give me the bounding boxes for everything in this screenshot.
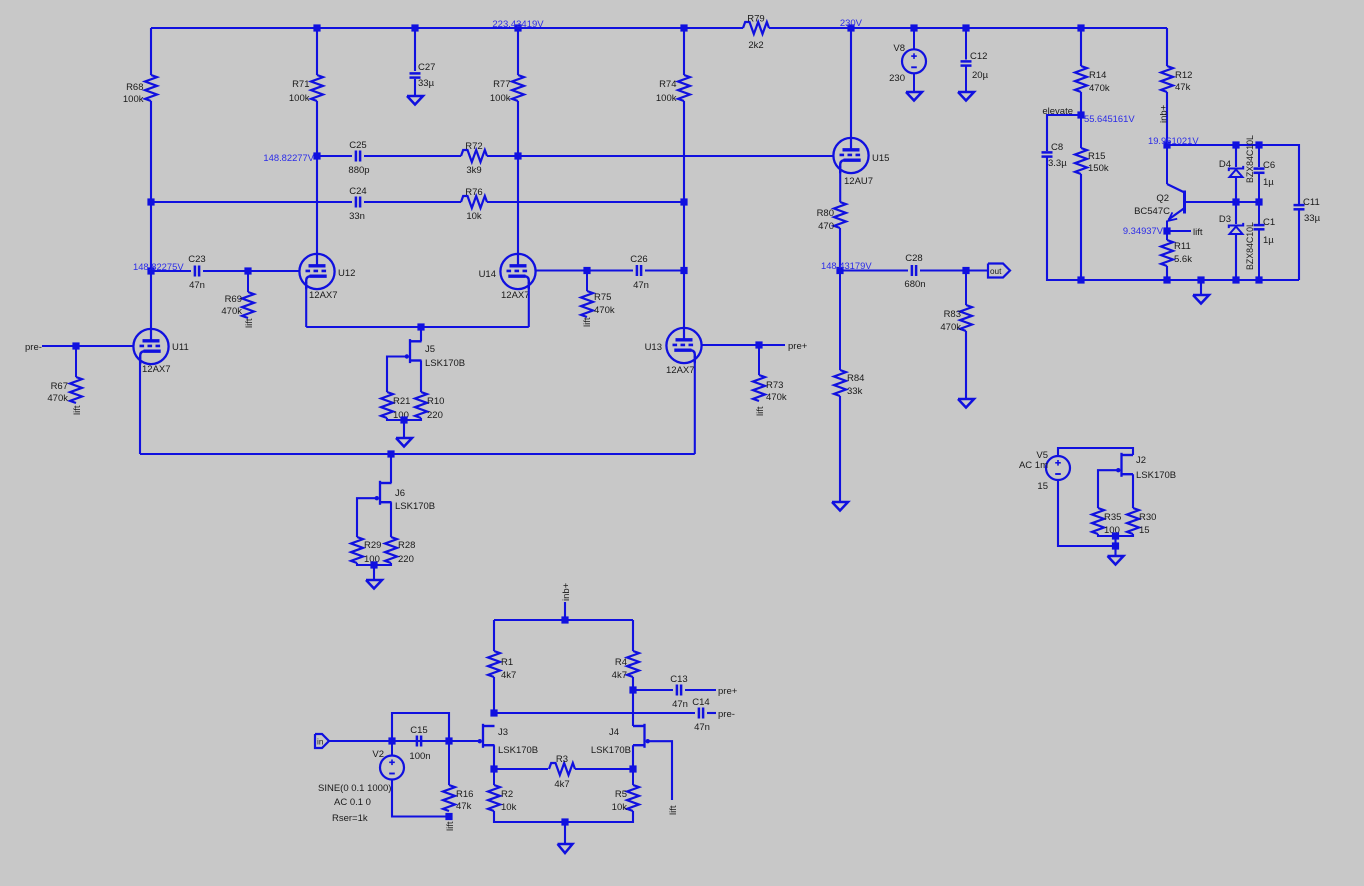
svg-text:2k2: 2k2: [748, 40, 763, 51]
wire cathode rail U11 U13: [140, 453, 695, 455]
svg-text:470k: 470k: [47, 393, 68, 404]
junction top rail R74: [680, 24, 687, 31]
ground J5 tail: [396, 420, 412, 447]
transistor Q2 BC547C: [1134, 145, 1184, 231]
junction R73 top: [755, 341, 762, 348]
svg-text:9.34937V: 9.34937V: [1123, 225, 1164, 236]
junction J6 drain: [387, 450, 394, 457]
node 19.961021V annotation: [1148, 135, 1199, 146]
svg-text:5.6k: 5.6k: [1174, 254, 1192, 265]
wire R3 row right: [575, 768, 633, 770]
wire C23 row left: [151, 270, 191, 272]
svg-text:R1: R1: [501, 657, 513, 668]
junction node 148.43179V: [836, 267, 843, 274]
net label lift at J4: [668, 805, 679, 815]
diode D4 BZX84C10L: [1219, 135, 1255, 183]
junction C24 row right: [680, 198, 687, 205]
svg-text:SINE(0 0.1 1000): SINE(0 0.1 1000): [318, 783, 391, 794]
junction top rail R71: [313, 24, 320, 31]
wire J5 drain lead: [420, 327, 422, 341]
junction node 9.34937V: [1163, 227, 1170, 234]
capacitor C25: [348, 140, 369, 176]
wire C28 to out: [920, 269, 988, 271]
ground R83: [958, 331, 974, 408]
JFET J4 LSK170B: [591, 724, 650, 756]
svg-text:U15: U15: [872, 153, 889, 164]
wire C13 to pre+: [685, 689, 716, 691]
resistor R76: [461, 187, 487, 222]
wire R15 to bottom rail: [1080, 174, 1082, 280]
svg-text:V2: V2: [372, 749, 384, 760]
ground C12: [958, 92, 974, 101]
svg-text:lift: lift: [755, 406, 766, 416]
wire J5 source to R10: [420, 361, 422, 393]
wire C26 to U13 anode column: [645, 269, 684, 271]
junction top rail V8: [910, 24, 917, 31]
svg-text:lift: lift: [1193, 227, 1203, 238]
ground J2 tail: [1108, 546, 1124, 565]
net label lift at R67: [72, 405, 83, 415]
resistor R15: [1075, 115, 1109, 174]
svg-text:47k: 47k: [456, 801, 472, 812]
net label pre+ bottom: [718, 686, 738, 697]
junction bias rail R11: [1163, 276, 1170, 283]
wire C15 bypass loop: [392, 713, 449, 741]
resistor R11: [1161, 231, 1192, 266]
wire C24 row left: [151, 201, 352, 203]
resistor R10: [415, 392, 444, 421]
tube U11 12AX7: [133, 329, 188, 375]
svg-text:680n: 680n: [904, 279, 925, 290]
wire R1 top lead: [493, 620, 495, 651]
wire tail to V5 return: [1114, 536, 1116, 546]
svg-text:lift: lift: [445, 821, 456, 831]
wire C8 to bottom rail: [1047, 157, 1081, 280]
svg-text:33n: 33n: [349, 211, 365, 222]
wire J2 source to R30: [1132, 474, 1134, 508]
net label lift at R16: [445, 821, 456, 831]
svg-text:U13: U13: [645, 342, 662, 353]
svg-text:4k7: 4k7: [612, 670, 627, 681]
svg-text:R15: R15: [1088, 151, 1105, 162]
svg-text:V8: V8: [893, 43, 905, 54]
resistor R68: [123, 75, 157, 105]
wire C24 to R76: [364, 201, 461, 203]
capacitor C15: [409, 725, 430, 762]
svg-text:pre-: pre-: [718, 709, 735, 720]
wire C23 to U12 grid: [203, 270, 248, 272]
wire R71 column: [316, 28, 318, 75]
junction R69 top: [244, 267, 251, 274]
net label inb+ right: [1159, 104, 1170, 123]
junction node 148.82277V: [313, 152, 320, 159]
wire R68 column: [150, 28, 152, 75]
junction C13 node: [629, 686, 636, 693]
wire D4 cathode lead: [1235, 145, 1237, 167]
junction J6 tail ground: [370, 561, 377, 568]
wire node to C28: [840, 269, 908, 271]
wire U15 cathode to R80: [839, 166, 841, 202]
svg-text:LSK170B: LSK170B: [498, 745, 538, 756]
voltage source V8: [889, 28, 926, 91]
svg-text:D4: D4: [1219, 159, 1231, 170]
wire U12 grid: [248, 270, 300, 272]
svg-text:12AX7: 12AX7: [666, 365, 695, 376]
svg-text:C11: C11: [1303, 197, 1320, 208]
wire R77 column: [517, 28, 519, 75]
resistor R16: [443, 741, 473, 812]
junction bias rail D3: [1232, 276, 1239, 283]
wire node to zener row: [1167, 145, 1299, 204]
capacitor C6: [1254, 145, 1276, 202]
svg-text:47n: 47n: [189, 280, 205, 291]
capacitor C8: [1042, 142, 1068, 169]
svg-text:230: 230: [889, 73, 905, 84]
svg-text:J3: J3: [498, 727, 508, 738]
svg-text:C1: C1: [1263, 217, 1275, 228]
tube U15 12AU7: [833, 138, 889, 187]
wire R74 to node: [683, 101, 685, 202]
wire R80 to node: [839, 228, 841, 271]
capacitor C12: [961, 28, 989, 92]
junction bias rail ground: [1197, 276, 1204, 283]
svg-text:inb+: inb+: [561, 582, 572, 601]
resistor R79: [743, 14, 769, 52]
resistor R28: [385, 537, 415, 565]
wire R77 to U14 anode: [517, 101, 519, 254]
wire C25 to R72: [364, 155, 461, 157]
svg-text:C13: C13: [670, 674, 687, 685]
junction J5 tail ground: [400, 416, 407, 423]
junction V5 return: [1112, 542, 1119, 549]
ground bottom section: [558, 822, 573, 853]
svg-text:BZX84C10L: BZX84C10L: [1245, 135, 1255, 183]
svg-text:230V: 230V: [840, 18, 863, 29]
svg-text:C8: C8: [1051, 142, 1063, 153]
junction J5 drain: [417, 323, 424, 330]
capacitor C1: [1254, 202, 1276, 280]
svg-text:C24: C24: [349, 186, 366, 197]
wire U12 anode: [316, 156, 318, 254]
wire V5 top to J2 drain: [1058, 448, 1133, 457]
capacitor C26: [630, 254, 649, 291]
svg-text:10k: 10k: [501, 802, 517, 813]
svg-text:470k: 470k: [940, 322, 961, 333]
svg-text:LSK170B: LSK170B: [425, 358, 465, 369]
svg-text:R12: R12: [1175, 70, 1192, 81]
junction top rail C12: [962, 24, 969, 31]
svg-text:100n: 100n: [409, 751, 430, 762]
svg-text:R67: R67: [51, 381, 68, 392]
node 148.82277V annotation: [263, 152, 314, 163]
svg-text:1µ: 1µ: [1263, 177, 1274, 188]
tube U14 12AX7: [479, 254, 536, 301]
resistor R72: [461, 141, 487, 176]
wire V5 bottom: [1058, 479, 1116, 546]
wire bottom ground rail: [494, 811, 633, 822]
svg-text:C26: C26: [630, 254, 647, 265]
svg-text:148.43179V: 148.43179V: [821, 260, 872, 271]
svg-text:lift: lift: [668, 805, 679, 815]
voltage source V5: [1019, 450, 1070, 492]
svg-text:33k: 33k: [847, 386, 863, 397]
svg-text:R29: R29: [364, 540, 381, 551]
junction D4 bottom: [1232, 198, 1239, 205]
wire 230V to U15 anode: [850, 28, 852, 138]
svg-text:R83: R83: [944, 309, 961, 320]
svg-text:U12: U12: [338, 268, 355, 279]
wire D3 anode lead: [1235, 234, 1237, 280]
svg-text:20µ: 20µ: [972, 70, 989, 81]
junction node 148.82275V: [147, 267, 154, 274]
svg-text:R2: R2: [501, 789, 513, 800]
svg-text:LSK170B: LSK170B: [1136, 470, 1176, 481]
capacitor C28: [904, 253, 925, 290]
capacitor C27: [410, 62, 436, 89]
wire J3 source: [493, 745, 495, 769]
ground V8: [906, 91, 922, 101]
svg-text:470k: 470k: [221, 306, 242, 317]
svg-text:100k: 100k: [490, 93, 511, 104]
svg-text:R10: R10: [427, 396, 444, 407]
svg-text:47n: 47n: [672, 699, 688, 710]
svg-text:R74: R74: [659, 79, 676, 90]
svg-text:33µ: 33µ: [1304, 213, 1321, 224]
svg-text:R5: R5: [615, 789, 627, 800]
ground C27: [407, 79, 423, 105]
JFET J2 LSK170B: [1116, 453, 1176, 481]
svg-text:47n: 47n: [694, 722, 710, 733]
wire node to node 148.82275V: [150, 202, 152, 271]
JFET J3 LSK170B: [478, 724, 539, 756]
junction top rail R77: [514, 24, 521, 31]
diode D3 BZX84C10L: [1219, 214, 1255, 270]
svg-text:R69: R69: [225, 294, 242, 305]
svg-text:12AX7: 12AX7: [501, 290, 530, 301]
wire R12 column: [1166, 28, 1168, 66]
svg-text:U11: U11: [172, 342, 189, 353]
junction bottom ground: [561, 818, 568, 825]
svg-text:100k: 100k: [123, 94, 144, 105]
wire top supply rail right: [769, 27, 1167, 29]
svg-text:Rser=1k: Rser=1k: [332, 813, 368, 824]
svg-text:R80: R80: [817, 208, 834, 219]
wire R3 row left: [494, 768, 548, 770]
svg-text:R71: R71: [292, 79, 309, 90]
wire U14 cathode: [528, 282, 530, 327]
node 148.82275V annotation: [133, 261, 184, 272]
svg-text:lift: lift: [582, 317, 593, 327]
resistor R67: [47, 346, 82, 404]
wire lift stub at Q2 emitter: [1167, 230, 1191, 232]
wire J4 source: [632, 745, 634, 769]
junction R16 top: [445, 737, 452, 744]
wire J6 source to R28: [390, 502, 392, 537]
net label pre-: [25, 342, 42, 353]
resistor R73: [753, 345, 787, 403]
svg-text:R4: R4: [615, 657, 627, 668]
svg-text:R84: R84: [847, 373, 864, 384]
svg-text:C28: C28: [905, 253, 922, 264]
resistor R5: [612, 769, 639, 813]
net label lift at R69: [244, 318, 255, 328]
svg-text:R79: R79: [747, 14, 764, 25]
svg-text:470k: 470k: [766, 392, 787, 403]
svg-text:880p: 880p: [348, 165, 369, 176]
wire U14 grid: [536, 269, 588, 271]
svg-text:R77: R77: [493, 79, 510, 90]
svg-text:1µ: 1µ: [1263, 235, 1274, 246]
ground bias rail: [1193, 280, 1209, 304]
junction J3 source: [490, 765, 497, 772]
wire R1 to J3 drain: [493, 677, 495, 713]
junction top rail C27: [411, 24, 418, 31]
node 9.34937V annotation: [1123, 225, 1164, 236]
wire U11 cathode: [139, 357, 141, 454]
svg-text:BC547C: BC547C: [1134, 206, 1170, 217]
capacitor C24: [349, 186, 367, 222]
wire R12 to node 19.9V: [1166, 92, 1168, 145]
wire R76 to R74 column: [487, 201, 684, 203]
junction C26 R74 column: [680, 267, 687, 274]
svg-text:inb+: inb+: [1159, 104, 1170, 123]
voltage source V2: [318, 741, 404, 824]
wire R11 to bottom rail: [1166, 266, 1168, 280]
svg-text:C12: C12: [970, 51, 987, 62]
junction bias rail R15: [1077, 276, 1084, 283]
svg-text:10k: 10k: [612, 802, 628, 813]
wire U13 cathode: [694, 356, 696, 454]
wire C25 row left: [317, 155, 352, 157]
resistor R83: [940, 271, 972, 334]
svg-text:R3: R3: [556, 754, 568, 765]
JFET J6 LSK170B: [375, 481, 436, 512]
node 230V annotation: [840, 18, 863, 29]
junction V2 top: [388, 737, 395, 744]
junction node C24 row left: [147, 198, 154, 205]
net label pre+ right: [788, 341, 808, 352]
svg-text:R75: R75: [594, 292, 611, 303]
svg-text:Q2: Q2: [1156, 193, 1169, 204]
svg-text:pre+: pre+: [788, 341, 808, 352]
svg-text:C15: C15: [410, 725, 427, 736]
junction R75 top: [583, 267, 590, 274]
wire C13 row: [633, 689, 673, 691]
wire top supply rail left: [151, 27, 743, 29]
svg-text:R76: R76: [465, 187, 482, 198]
capacitor C14: [692, 697, 710, 733]
junction J3 drain pre- row: [490, 709, 497, 716]
wire R68 to node: [150, 101, 152, 202]
wire J6 gate to R29: [357, 498, 375, 537]
svg-text:J5: J5: [425, 344, 435, 355]
wire J6 drain lead: [390, 454, 392, 483]
wire J2 gate to R35: [1098, 470, 1117, 508]
resistor R2: [488, 769, 517, 813]
svg-text:100k: 100k: [289, 93, 310, 104]
svg-text:C25: C25: [349, 140, 366, 151]
net label lift at Q2: [1193, 227, 1203, 238]
junction bottom rail inb+: [561, 616, 568, 623]
wire in to J3 gate: [329, 740, 479, 742]
wire C14 to pre-: [707, 712, 716, 714]
resistor R74: [656, 75, 690, 104]
junction C6 top: [1255, 141, 1262, 148]
svg-text:220: 220: [427, 410, 443, 421]
wire R4 top lead: [632, 620, 634, 651]
svg-text:470: 470: [818, 221, 834, 232]
wire pre- row: [494, 712, 695, 714]
svg-text:U14: U14: [479, 269, 496, 280]
wire D3 cathode lead: [1235, 202, 1237, 224]
junction node 230V: [847, 24, 854, 31]
svg-text:LSK170B: LSK170B: [395, 501, 435, 512]
svg-text:148.82277V: 148.82277V: [263, 152, 314, 163]
svg-text:55.645161V: 55.645161V: [1084, 113, 1135, 124]
svg-text:J2: J2: [1136, 455, 1146, 466]
svg-text:R72: R72: [465, 141, 482, 152]
wire R14 column: [1080, 28, 1082, 66]
resistor R77: [490, 75, 524, 104]
junction node 19.961021V: [1163, 141, 1170, 148]
svg-text:3.3µ: 3.3µ: [1048, 158, 1067, 169]
svg-text:47n: 47n: [633, 280, 649, 291]
svg-text:lift: lift: [244, 318, 255, 328]
svg-text:pre-: pre-: [25, 342, 42, 353]
svg-text:470k: 470k: [1089, 83, 1110, 94]
node 55.645161V annotation: [1084, 113, 1135, 124]
wire cathode rail U12 U14: [306, 326, 529, 328]
svg-text:R30: R30: [1139, 512, 1156, 523]
svg-text:470k: 470k: [594, 305, 615, 316]
port out: [988, 264, 1010, 278]
wire R21 R10 bottom bar: [387, 418, 421, 420]
svg-text:12AX7: 12AX7: [142, 364, 171, 375]
svg-text:4k7: 4k7: [554, 779, 569, 790]
svg-text:C27: C27: [418, 62, 435, 73]
wire C26 row: [587, 269, 633, 271]
wire elevate to C8: [1047, 115, 1081, 151]
resistor R14: [1075, 66, 1110, 94]
wire R29 R28 bottom bar: [357, 563, 391, 565]
junction node 55.645161V: [1077, 111, 1084, 118]
svg-text:R14: R14: [1089, 70, 1106, 81]
wire bias bottom rail: [1047, 279, 1299, 281]
svg-text:lift: lift: [72, 405, 83, 415]
net label pre- bottom: [718, 709, 735, 720]
wire R72 to U15 grid: [487, 155, 834, 157]
net label elevate: [1042, 106, 1073, 117]
net label lift at R75: [582, 317, 593, 327]
junction R83 top: [962, 267, 969, 274]
wire U13 grid: [702, 344, 786, 346]
svg-text:R16: R16: [456, 789, 473, 800]
svg-text:R73: R73: [766, 380, 783, 391]
wire V2 bottom: [392, 779, 449, 817]
junction R16 bottom: [445, 813, 452, 820]
svg-text:J4: J4: [609, 727, 619, 738]
svg-text:out: out: [990, 267, 1002, 276]
svg-text:15: 15: [1037, 481, 1048, 492]
svg-text:12AU7: 12AU7: [844, 176, 873, 187]
resistor R84: [834, 271, 864, 398]
wire node to U13 anode: [683, 202, 685, 328]
wire U12 cathode: [305, 282, 307, 327]
svg-text:R68: R68: [126, 82, 143, 93]
wire U11 anode: [150, 271, 152, 329]
svg-text:220: 220: [398, 554, 414, 565]
svg-text:33µ: 33µ: [418, 78, 435, 89]
